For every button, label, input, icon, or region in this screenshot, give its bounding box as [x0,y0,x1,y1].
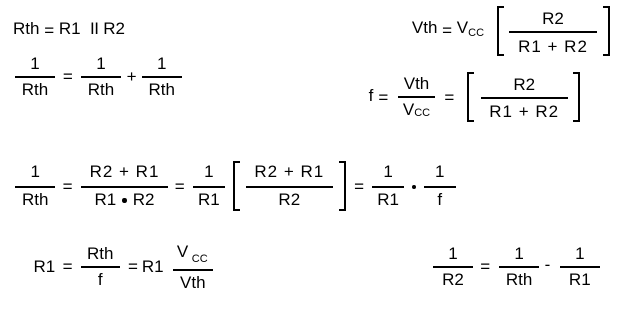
fraction R2 / (R1 + R2) [481,75,568,121]
equals [128,257,138,276]
dot operator [412,185,417,190]
text Vth = Vcc [412,18,484,40]
equals [175,177,185,196]
fraction 1/f [424,162,456,209]
fraction 1/Rth [499,244,539,289]
left bracket [233,161,240,211]
fraction 1/Rth [15,162,55,209]
fraction (R2 + R1)/R2 [246,162,333,209]
equals [63,177,73,196]
equals [444,88,454,107]
right bracket [339,161,346,211]
equals [63,257,73,276]
fraction Vcc/Vth [173,244,213,292]
fraction (R2 + R1)/(R1·R2) [81,162,168,209]
fraction Vth / Vcc [398,74,435,122]
fraction 1/R2 [433,244,473,289]
plus [127,67,137,86]
fraction Rth/f [81,244,120,289]
fraction 1/Rth (third) [142,54,182,99]
equation: Rth = R1 || R2 [13,19,125,38]
fraction 1/R1 [560,244,600,289]
fraction 1/R1 [372,162,404,209]
right bracket [573,72,580,122]
fraction 1/R1 [193,162,225,209]
equals [63,67,73,86]
text f [369,86,374,105]
left bracket [467,72,474,122]
text R1 [34,257,56,276]
equals [480,257,490,276]
minus [545,255,551,274]
fraction 1/Rth (first) [15,54,55,99]
fraction 1/Rth (second) [81,54,121,99]
equals [378,88,388,107]
equals [354,177,364,196]
text R1 [142,257,164,276]
left bracket [497,6,504,56]
fraction R2 / (R1 + R2) [509,9,597,56]
right bracket [603,6,610,56]
